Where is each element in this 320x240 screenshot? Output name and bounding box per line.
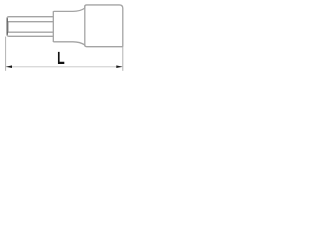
hex flat line lower [7, 31, 53, 33]
bit tip end-face edge (darker) [6, 18, 8, 35]
socket front face line [84, 5, 86, 46]
label L [58, 52, 64, 64]
extension line right [122, 47, 124, 71]
arrowhead left [6, 65, 12, 68]
bit tip chamfer line [7, 22, 9, 32]
arrowhead right [116, 65, 122, 68]
collar and socket outline [53, 5, 123, 47]
hex bit outline [7, 17, 53, 37]
extension line left [5, 37, 7, 71]
dimension line [6, 66, 122, 68]
collar front face line / hex section end [52, 12, 54, 42]
hex flat line upper [7, 21, 53, 23]
background [0, 0, 128, 78]
